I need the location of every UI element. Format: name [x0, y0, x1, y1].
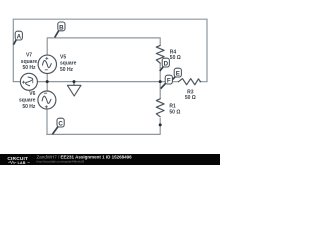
- label R3: [185, 89, 196, 101]
- junction dot V5/V6: [46, 80, 49, 83]
- node B: [55, 22, 65, 37]
- label R4: [170, 49, 181, 61]
- svg-text:LAB: LAB: [18, 161, 26, 165]
- wire top edge: [13, 18, 207, 20]
- wire left edge: [12, 19, 14, 81]
- label V5: [60, 54, 77, 73]
- footer bar: [0, 154, 220, 165]
- node E: [171, 68, 181, 81]
- node C: [52, 118, 64, 134]
- svg-text:50 Hz: 50 Hz: [22, 104, 36, 110]
- ground: [73, 82, 75, 86]
- svg-text:V7: V7: [26, 53, 32, 59]
- label R1: [169, 103, 180, 115]
- wire right edge: [206, 19, 208, 81]
- node D: [160, 58, 170, 71]
- svg-text:C: C: [58, 121, 63, 128]
- source V7: [20, 73, 37, 90]
- svg-text:V6: V6: [29, 91, 35, 97]
- svg-text:50 Ω: 50 Ω: [185, 95, 196, 101]
- junction dot R1 bottom: [159, 123, 162, 126]
- source V5: [38, 55, 56, 73]
- wire R3 lead right: [160, 81, 207, 83]
- svg-text:E: E: [176, 71, 180, 78]
- svg-text:R1: R1: [169, 103, 176, 109]
- node F: [161, 75, 173, 88]
- resistor R4: [156, 45, 164, 63]
- junction dot ground: [73, 80, 76, 83]
- wire node B horizontal: [47, 38, 160, 55]
- svg-text:square: square: [19, 98, 36, 104]
- wire V6 leads: [46, 82, 48, 135]
- svg-text:A: A: [17, 34, 22, 41]
- source V6: [38, 91, 56, 109]
- svg-text:http://circuitlab.com/capab448: http://circuitlab.com/capab448zvk28: [37, 160, 85, 164]
- svg-text:50 Hz: 50 Hz: [22, 65, 36, 71]
- svg-text:D: D: [164, 61, 169, 68]
- label V6: [19, 91, 36, 110]
- resistor R1: [156, 99, 164, 117]
- wire bottom edge: [47, 119, 160, 135]
- svg-text:square: square: [60, 61, 77, 67]
- footer logo zigzag + LAB: [8, 161, 16, 163]
- svg-text:50 Ω: 50 Ω: [169, 110, 180, 116]
- resistor R3: [178, 79, 200, 85]
- wire R4 bottom lead: [159, 64, 161, 82]
- svg-text:B: B: [59, 24, 64, 31]
- svg-text:F: F: [167, 78, 171, 85]
- label V7: [21, 53, 38, 72]
- wire V5 bottom to junction: [46, 74, 48, 82]
- wire middle horizontal: [13, 81, 160, 83]
- wire R1 top lead: [159, 82, 161, 99]
- svg-text:50 Hz: 50 Hz: [60, 67, 74, 73]
- junction dot R chain: [159, 80, 162, 83]
- svg-text:V5: V5: [60, 54, 66, 60]
- svg-text:square: square: [21, 59, 38, 65]
- node A: [14, 31, 23, 45]
- svg-text:50 Ω: 50 Ω: [170, 55, 181, 61]
